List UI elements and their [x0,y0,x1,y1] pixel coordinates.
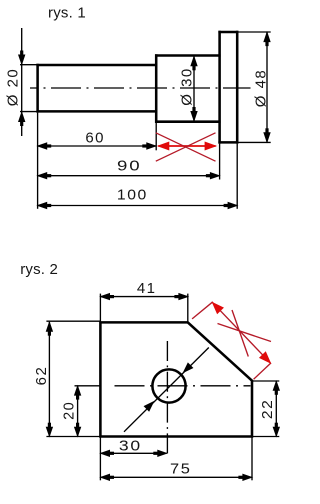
dim line 75 [100,476,251,478]
extension flange right face down [236,144,238,209]
arrow 22 top [273,382,279,391]
arrow D30 bottom [191,112,197,121]
svg-text:Ø 48: Ø 48 [252,69,269,108]
dim line 100 [38,205,237,207]
red wrong dim line fig2 [212,302,270,363]
arrow 62 top [46,322,52,331]
arrow D48 top [264,33,270,42]
shaft middle cylinder bottom edge [155,120,221,123]
shaft small cylinder bottom edge [36,110,157,113]
dim line D30 [193,56,195,121]
extension 75 left [99,438,101,481]
plate outline [100,322,252,436]
arrow 60 right [147,143,156,149]
red arrow fig2 bottom [260,352,271,363]
red extension chamfer top [192,302,213,319]
extension flange bottom [238,141,270,143]
arrow 22 bottom [273,427,279,436]
arrow 90 left [38,173,47,179]
extension flange left face down [219,144,221,180]
arrow 41 right [179,294,188,300]
arrow D20 top [19,55,25,64]
dim line D20 [21,28,23,136]
shaft step face [155,54,158,123]
arrow D48 bottom [264,133,270,142]
dim line 20 [77,386,79,436]
red arrow fig1 right [205,142,216,150]
arrow 60 left [38,143,47,149]
hole vertical centerline [166,341,168,455]
svg-text:22: 22 [259,399,276,420]
svg-text:20: 20 [60,401,77,420]
arrow D30 top [191,57,197,66]
arrow 100 right [228,203,237,209]
red cross line 2 fig2 [232,310,248,357]
extension 75 right [251,438,253,481]
dim line 60 [38,145,156,147]
svg-text:rys. 1: rys. 1 [48,5,86,22]
svg-text:60: 60 [85,130,105,147]
dim line D48 [266,32,268,142]
hole diagonal dimension line [124,348,209,432]
arrow 100 left [38,203,47,209]
red extension chamfer bottom [254,363,271,379]
shaft centerline [30,87,251,89]
flange left face [218,31,221,144]
dim line 90 [38,175,220,177]
dim line 62 [48,322,50,436]
extension bottom edge D20 [20,111,38,113]
dim line 22 [275,381,277,436]
flange right face [236,31,239,144]
dim line 41 [100,296,188,298]
svg-text:Ø 20: Ø 20 [4,68,21,107]
extension 41 left [99,294,101,322]
red arrow fig1 left [158,142,169,150]
shaft small cylinder left face [36,64,39,113]
red arrow fig2 top [213,303,224,314]
arrow 75 left [101,474,110,480]
arrow 20 top [75,386,81,395]
hole diagonal arrow upper [184,363,193,372]
red cross line 1 fig1 [156,133,216,161]
svg-text:62: 62 [33,366,50,386]
arrow 41 left [101,294,110,300]
red cross line 1 fig2 [218,324,272,342]
extension 22 bottom [253,436,280,438]
arrow 30 right [158,450,167,456]
dim line 30 [100,452,166,454]
arrow 75 right [243,474,252,480]
extension 62 bottom [46,436,101,438]
extension flange top [238,31,270,33]
hole horizontal centerline [115,385,251,387]
extension 62 top [46,320,101,322]
svg-text:75: 75 [170,460,192,477]
flange top edge [218,31,238,34]
extension step down [155,123,157,150]
hole circle [152,369,185,402]
svg-text:Ø 30: Ø 30 [179,67,196,106]
extension 41 right [187,294,189,322]
arrow 30 left [101,450,110,456]
svg-text:90: 90 [117,158,142,175]
shaft middle cylinder top edge [155,54,221,57]
flange bottom edge [218,141,238,144]
extension shaft left face down [37,113,39,209]
arrow 62 bottom [46,427,52,436]
svg-text:100: 100 [117,186,148,203]
arrow 20 bottom [75,427,81,436]
hole diagonal arrow lower [144,402,153,411]
extension 22 top [253,380,280,382]
svg-text:30: 30 [119,438,142,455]
arrow D20 bottom [19,113,25,122]
red wrong dim line fig1 [158,145,215,147]
extension top edge D20 [20,64,38,66]
shaft small cylinder top edge [36,64,157,67]
svg-text:41: 41 [137,280,157,297]
svg-text:rys. 2: rys. 2 [20,261,58,278]
extension 20 top [75,385,102,387]
arrow 90 right [210,173,219,179]
red cross line 2 fig1 [156,133,216,161]
